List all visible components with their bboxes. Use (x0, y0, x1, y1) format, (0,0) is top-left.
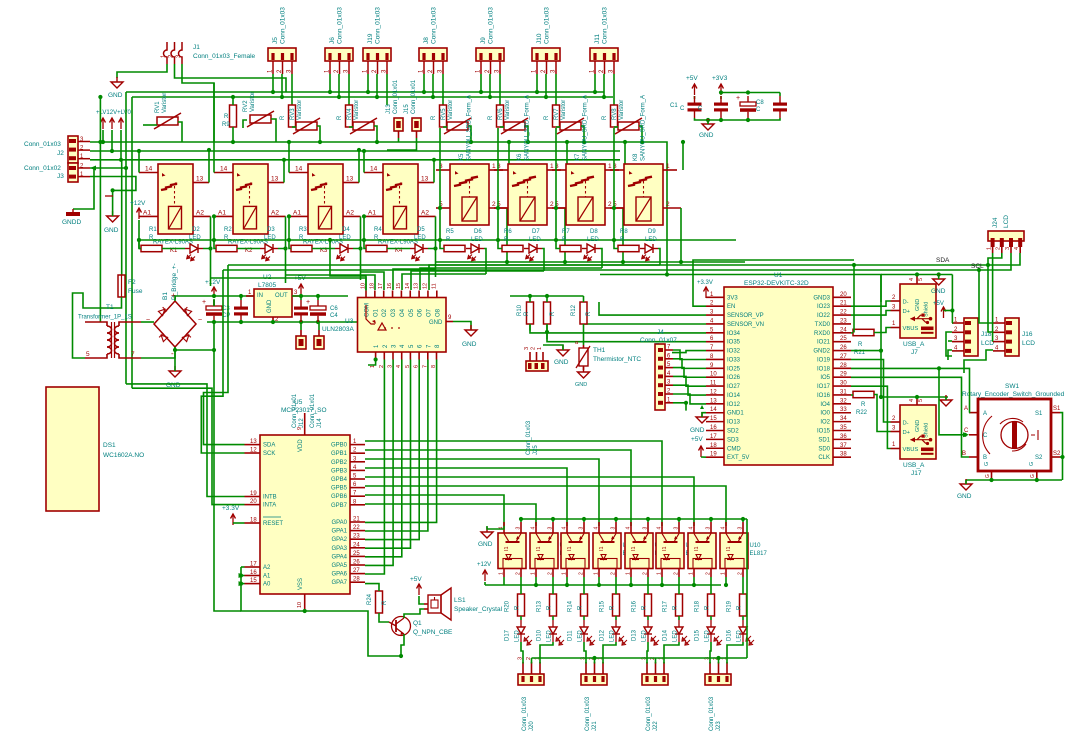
wire J1 pin1 to GND (117, 64, 167, 78)
resistor R18 (708, 594, 715, 616)
capacitor C2 (714, 103, 728, 106)
svg-text:+: + (736, 95, 740, 102)
svg-text:D15: D15 (695, 629, 701, 641)
wire J19 pin2 drop (376, 74, 378, 97)
connector J21 Conn_01x03 (581, 674, 607, 685)
svg-text:Speaker_Crystal: Speaker_Crystal (454, 606, 503, 613)
svg-text:LED: LED (529, 237, 541, 243)
svg-text:Conn_01x03: Conn_01x03 (24, 141, 61, 148)
connector J13 Conn_01x01 (394, 118, 403, 131)
svg-text:EXT_5V: EXT_5V (727, 455, 749, 461)
connector J6 Conn_01x03 (325, 48, 353, 61)
svg-text:R: R (586, 311, 592, 316)
wire driver input 7 to expander (365, 360, 428, 532)
wire relay K7 pin2 right (622, 208, 624, 262)
svg-text:10: 10 (297, 602, 303, 608)
wire J10 pin2 drop (545, 74, 547, 97)
wire relay K3 A1 to bus (288, 216, 290, 240)
svg-text:R5: R5 (446, 229, 454, 235)
wire GPB to opto 8 (365, 486, 726, 526)
capacitor C9 (773, 103, 787, 106)
optocoupler U6 EL817 (593, 533, 621, 569)
svg-text:13: 13 (421, 176, 429, 183)
wire relay K4 pin13 up (433, 160, 435, 183)
wire driver input 2 to expander (365, 360, 384, 575)
ground GND (J25) (557, 350, 569, 356)
svg-text:R: R (550, 311, 556, 316)
optocoupler U11 EL817 (656, 533, 684, 569)
svg-text:15: 15 (250, 578, 257, 584)
svg-text:S2: S2 (1053, 451, 1061, 457)
svg-text:13: 13 (710, 398, 717, 404)
svg-text:IO23: IO23 (817, 304, 831, 310)
svg-text:1: 1 (499, 572, 505, 575)
svg-text:GPA0: GPA0 (331, 520, 347, 526)
svg-text:1: 1 (562, 572, 568, 575)
wire shield vertical (880, 275, 882, 398)
wire GPB to opto 3 (365, 468, 567, 526)
wire D2 out (203, 249, 211, 287)
wire relay K8 pin5 feed (614, 128, 618, 249)
svg-text:RV1: RV1 (155, 101, 161, 113)
svg-text:4: 4 (721, 527, 727, 530)
svg-text:4: 4 (562, 527, 568, 530)
svg-text:CMD: CMD (727, 446, 741, 452)
svg-text:D9: D9 (648, 229, 656, 235)
wire relay 4 output to driver (393, 269, 436, 290)
wire bridge plus to rail (175, 296, 254, 301)
svg-text:GND: GND (478, 541, 493, 548)
wire encoder S2 (1060, 456, 1063, 458)
svg-text:R: R (504, 237, 509, 243)
svg-text:21: 21 (840, 301, 847, 307)
svg-text:3: 3 (706, 527, 712, 530)
svg-text:GND: GND (267, 299, 273, 313)
svg-text:1: 1 (537, 347, 543, 350)
svg-text:Varistor: Varistor (448, 100, 454, 120)
svg-text:1: 1 (666, 163, 670, 170)
svg-text:1: 1 (550, 163, 554, 170)
wire driver input 4 to expander (365, 360, 402, 557)
svg-text:D-: D- (903, 421, 909, 427)
wire driver input 1 jog (368, 360, 376, 366)
wire net LV12V (J2.3) (90, 142, 667, 275)
varistor RV8 (under J11) (618, 122, 639, 130)
svg-text:GPA5: GPA5 (331, 563, 347, 569)
wire relay aux bus (y262) (436, 261, 745, 263)
svg-text:C4: C4 (330, 313, 338, 319)
svg-text:2: 2 (550, 201, 554, 208)
wire J9 pin3 drop (499, 74, 501, 105)
diode D8 LED (582, 248, 587, 250)
wire J10 pin3 drop (555, 74, 557, 105)
svg-text:GPA7: GPA7 (331, 580, 347, 586)
wire encoder B (851, 377, 969, 457)
svg-text:J15: J15 (404, 104, 410, 114)
svg-text:O7: O7 (426, 308, 432, 317)
wire 5V to sensors (510, 295, 584, 297)
relay K1 RAYEX-L90AS (158, 164, 193, 234)
svg-text:Varistor: Varistor (619, 100, 625, 120)
wire LED D17 to J20 (521, 642, 523, 664)
svg-text:RV6: RV6 (498, 108, 504, 120)
relay K7 SANYOU_SRD_Form_A (566, 164, 605, 225)
svg-text:ESP32-DEVKITC-32D: ESP32-DEVKITC-32D (744, 280, 809, 287)
svg-text:R: R (673, 605, 679, 610)
svg-text:GPB6: GPB6 (331, 494, 348, 500)
svg-text:O3: O3 (391, 308, 397, 317)
svg-text:J16: J16 (1022, 331, 1033, 338)
wire encoder A (851, 368, 970, 412)
capacitor C4 (294, 307, 308, 310)
svg-text:1: 1 (626, 572, 632, 575)
svg-text:2: 2 (674, 572, 680, 575)
svg-text:IO4: IO4 (820, 402, 830, 408)
wire relay K4 A1 to bus (363, 216, 365, 240)
connector J20 Conn_01x03 (518, 674, 544, 685)
svg-text:R3: R3 (299, 227, 307, 233)
svg-text:J8: J8 (423, 37, 430, 44)
wire lcd feed 1 (979, 270, 993, 323)
svg-text:C: C (698, 106, 703, 112)
varistor RV2 (250, 115, 271, 123)
capacitor C8 polarized (740, 102, 756, 106)
svg-text:IO34: IO34 (727, 331, 741, 337)
svg-text:Varistor: Varistor (297, 100, 303, 120)
wire R3 to D4 (312, 248, 335, 250)
connector J2 Conn_01x03 (68, 136, 78, 163)
resistor R (under J9) (497, 105, 504, 127)
svg-text:2: 2 (531, 347, 537, 350)
wire net (J2.2) (90, 150, 620, 152)
transformer T1 (107, 326, 112, 333)
svg-text:J23: J23 (716, 721, 722, 731)
svg-text:LCD: LCD (1022, 340, 1035, 347)
svg-text:LED: LED (645, 237, 657, 243)
svg-text:R12: R12 (571, 304, 577, 316)
svg-text:GPB1: GPB1 (331, 451, 348, 457)
svg-text:Conn_01x03: Conn_01x03 (602, 7, 609, 44)
svg-text:S1: S1 (1035, 411, 1043, 417)
svg-text:C: C (756, 107, 761, 113)
svg-text:SANYOU_SRD_Form_A: SANYOU_SRD_Form_A (525, 95, 531, 161)
wire J5 pin3 drop (291, 74, 293, 105)
svg-text:SANYOU_SRD_Form_A: SANYOU_SRD_Form_A (467, 95, 473, 161)
svg-text:ULN2803A: ULN2803A (322, 326, 354, 333)
wire usb J7 D+ net (851, 311, 891, 316)
svg-text:IO18: IO18 (817, 366, 831, 372)
connector J18 LCD (964, 318, 978, 356)
relay K8 SANYOU_SRD_Form_A (624, 164, 663, 225)
usb connector J17 USB_A (900, 405, 936, 459)
wire relay 6 output to driver (411, 271, 544, 290)
svg-text:J5: J5 (272, 37, 279, 44)
wire GPB to opto 6 (365, 441, 662, 526)
svg-text:IO12: IO12 (727, 402, 741, 408)
wire relay K1 pin13 up (208, 150, 210, 183)
svg-text:SDA: SDA (936, 257, 950, 264)
wire net (J2.1) (90, 159, 620, 161)
wire J11 pin2 drop (603, 74, 605, 97)
svg-text:11: 11 (710, 381, 717, 387)
wire relay K7 pin5 feed (556, 128, 560, 249)
svg-text:13: 13 (346, 176, 354, 183)
wire LED D11 to J21 (584, 642, 586, 664)
wire J8 pin3 drop (442, 74, 444, 105)
svg-text:R2: R2 (224, 227, 232, 233)
svg-text:27: 27 (353, 568, 360, 574)
svg-text:S1: S1 (1053, 406, 1061, 412)
svg-text:14: 14 (405, 283, 411, 289)
wire GPB to opto 4 (365, 459, 599, 526)
svg-text:J22: J22 (653, 721, 659, 731)
svg-text:R15: R15 (600, 600, 606, 612)
optocoupler U10 EL817 (720, 533, 748, 569)
wire relay K7 pin1 up (624, 142, 626, 170)
svg-text:14: 14 (710, 407, 717, 413)
svg-text:J13: J13 (386, 104, 392, 114)
relay K2 RAYEX-L90AS (233, 164, 268, 234)
wire relay K5 pin5 feed (440, 128, 444, 249)
io expander U5 MCP23017_SO (260, 435, 350, 594)
diode D2 LED (185, 248, 190, 250)
svg-text:Conn_01x03: Conn_01x03 (488, 7, 495, 44)
svg-text:12: 12 (422, 283, 428, 289)
wire relay 7 output to driver (420, 268, 602, 290)
svg-text:I1: I1 (504, 546, 510, 551)
wire driver input 3 to expander (365, 360, 393, 566)
svg-text:4: 4 (594, 527, 600, 530)
svg-text:J3: J3 (57, 173, 64, 180)
wire D3 out (278, 249, 286, 284)
svg-text:3: 3 (548, 527, 554, 530)
svg-text:K6: K6 (517, 153, 523, 161)
wire net SCL (223, 253, 1011, 270)
svg-text:R19: R19 (727, 600, 733, 612)
svg-text:14: 14 (220, 166, 228, 173)
svg-text:27: 27 (840, 354, 847, 360)
svg-text:GPA1: GPA1 (331, 529, 347, 535)
svg-text:GND: GND (104, 227, 119, 234)
power arrow LV2 (111, 118, 113, 129)
ground GND (left) (107, 216, 119, 222)
svg-text:2: 2 (611, 572, 617, 575)
wire encoder C (939, 368, 965, 434)
svg-text:18: 18 (369, 283, 375, 289)
mcu U1 ESP32-DEVKITC-32D (724, 287, 833, 465)
resistor R (under J6) (346, 105, 353, 127)
svg-text:J20: J20 (529, 721, 535, 731)
svg-text:SCK: SCK (263, 451, 275, 457)
wire J1 pin3 (182, 64, 214, 142)
svg-text:R8: R8 (620, 229, 628, 235)
svg-text:J7: J7 (911, 349, 918, 356)
svg-text:17: 17 (378, 283, 384, 289)
svg-text:21: 21 (353, 517, 360, 523)
svg-text:I1: I1 (631, 546, 637, 551)
relay K3 RAYEX-L90AS (308, 164, 343, 234)
svg-text:R14: R14 (568, 600, 574, 612)
svg-text:2: 2 (643, 572, 649, 575)
svg-text:26: 26 (840, 345, 847, 351)
svg-text:5: 5 (86, 351, 90, 358)
svg-text:R: R (488, 115, 494, 120)
svg-text:LED: LED (673, 630, 679, 642)
svg-text:A2: A2 (346, 210, 354, 217)
wire aux net (y274.5) (600, 275, 881, 303)
svg-text:7: 7 (131, 351, 135, 358)
svg-text:RV3: RV3 (290, 108, 296, 120)
svg-text:D+: D+ (903, 309, 911, 315)
svg-text:SDA: SDA (263, 443, 275, 449)
svg-text:R16: R16 (632, 600, 638, 612)
svg-text:DS1: DS1 (103, 442, 116, 449)
svg-text:LED: LED (737, 630, 743, 642)
connector J24 LCD (988, 231, 1024, 241)
svg-text:IO2: IO2 (820, 420, 830, 426)
svg-text:I1: I1 (726, 546, 732, 551)
svg-text:Conn_01x03: Conn_01x03 (431, 7, 438, 44)
svg-text:SD0: SD0 (818, 446, 830, 452)
wire D9 out drop (658, 249, 660, 266)
svg-text:Q1: Q1 (413, 620, 422, 627)
wire J6 pin1 drop (329, 74, 331, 92)
svg-text:GND: GND (429, 320, 443, 326)
wire SDA from MCP (204, 265, 245, 445)
svg-text:R6: R6 (504, 229, 512, 235)
svg-text:23: 23 (840, 318, 847, 324)
svg-text:36: 36 (840, 434, 847, 440)
svg-text:35: 35 (840, 425, 847, 431)
svg-text:R18: R18 (695, 600, 701, 612)
resistor R (under J5) (289, 105, 296, 127)
svg-text:J21: J21 (592, 721, 598, 731)
svg-text:RV8: RV8 (612, 108, 618, 120)
driver U3 ULN2803A (358, 298, 447, 353)
svg-text:IO0: IO0 (820, 411, 830, 417)
svg-text:C8: C8 (756, 100, 764, 106)
wire ESP pin4 net (584, 323, 707, 325)
diode D13 LED (644, 627, 652, 634)
ground GND (J17 shield) (940, 400, 952, 406)
svg-text:33: 33 (840, 407, 847, 413)
svg-text:1: 1 (987, 247, 993, 250)
relay K6 SANYOU_SRD_Form_A (508, 164, 547, 225)
svg-text:GPB4: GPB4 (331, 477, 348, 483)
wire J4 pin1 gnd (673, 403, 686, 411)
svg-text:LED: LED (642, 630, 648, 642)
svg-text:14: 14 (145, 166, 153, 173)
svg-text:G: G (985, 474, 991, 478)
wire ESP pin6 net (547, 324, 706, 342)
svg-text:VBUS: VBUS (903, 326, 919, 332)
resistor R2 (216, 245, 237, 251)
svg-text:R13: R13 (537, 600, 543, 612)
svg-text:J24: J24 (992, 217, 999, 228)
svg-text:EL817: EL817 (750, 551, 768, 557)
wire J4 pin7 to ESP (673, 350, 706, 360)
svg-text:GPB5: GPB5 (331, 486, 348, 492)
svg-text:GND: GND (915, 420, 921, 432)
svg-text:Conn_01x03: Conn_01x03 (280, 7, 287, 44)
svg-text:R: R (705, 605, 711, 610)
wire LED D16 to J23 (727, 642, 743, 664)
wire speaker to Q1 (404, 609, 424, 618)
svg-text:D5: D5 (417, 227, 425, 233)
svg-text:+12V: +12V (477, 562, 491, 568)
svg-text:R17: R17 (663, 600, 669, 612)
svg-text:RV4: RV4 (347, 108, 353, 120)
wire J17 shield bus (881, 396, 948, 398)
svg-text:IN: IN (257, 293, 263, 299)
wire LED D12 to J21 (603, 642, 616, 664)
svg-text:12: 12 (250, 448, 257, 454)
wire net (J3.2) (90, 167, 126, 169)
svg-text:IO5: IO5 (820, 375, 830, 381)
svg-text:IO35: IO35 (727, 340, 741, 346)
svg-text:D7: D7 (532, 229, 540, 235)
thermistor TH1 Thermistor_NTC (579, 348, 588, 366)
svg-text:15: 15 (396, 283, 402, 289)
svg-text:GND: GND (554, 359, 569, 366)
svg-text:26: 26 (353, 560, 360, 566)
svg-text:C: C (680, 106, 685, 112)
diode D12 LED (612, 627, 620, 634)
wire R1 to D2 (162, 248, 185, 250)
resistor R (under J8) (440, 105, 447, 127)
connector J14 Conn_01x01 (314, 336, 324, 349)
svg-text:D4: D4 (342, 227, 350, 233)
wire relay K5 pin1 up (508, 142, 510, 170)
wire INTB up (126, 384, 245, 497)
varistor RV4 (under J6) (353, 122, 374, 130)
svg-text:GPB0: GPB0 (331, 443, 348, 449)
wire D5 out (428, 249, 436, 278)
wire R2 to D3 (237, 248, 260, 250)
svg-text:+12V: +12V (205, 279, 221, 286)
wire R1 left to bus (139, 240, 141, 249)
diode D14 LED (675, 627, 683, 634)
varistor RV7 (under J10) (560, 122, 581, 130)
svg-text:IO26: IO26 (727, 375, 741, 381)
svg-text:19: 19 (250, 491, 257, 497)
svg-text:G: G (1030, 474, 1036, 478)
svg-text:A1: A1 (263, 574, 271, 580)
svg-text:R: R (547, 605, 553, 610)
wire LED D13 to J22 (647, 642, 648, 664)
svg-text:+5V: +5V (686, 75, 698, 82)
wire J10 pin1 drop (536, 74, 538, 92)
svg-text:1: 1 (594, 572, 600, 575)
svg-text:SD2: SD2 (727, 429, 739, 435)
svg-text:16: 16 (710, 425, 717, 431)
svg-text:C1: C1 (670, 103, 678, 109)
diode D4 LED (335, 248, 340, 250)
svg-text:A1: A1 (218, 210, 226, 217)
fuse F2 (118, 275, 125, 297)
svg-text:4: 4 (531, 527, 537, 530)
wire ESP IO17 to J17 VBUS (851, 386, 891, 448)
wire ESP EN net (693, 260, 854, 306)
svg-text:16: 16 (387, 283, 393, 289)
svg-text:R: R (280, 115, 286, 120)
resistor R1 (141, 245, 162, 251)
svg-text:D3: D3 (267, 227, 275, 233)
wire feeder to fuse (121, 160, 123, 275)
svg-text:22: 22 (840, 310, 847, 316)
svg-text:+3.3V: +3.3V (697, 280, 713, 286)
svg-text:D16: D16 (727, 629, 733, 641)
